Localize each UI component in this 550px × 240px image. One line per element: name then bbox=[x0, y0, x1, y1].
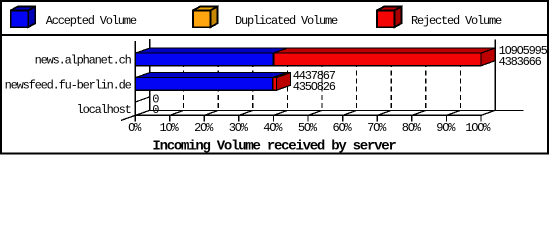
tick 0% bbox=[134, 115, 136, 121]
tick 100% bbox=[480, 115, 482, 121]
svg-text:435O826: 435O826 bbox=[293, 80, 336, 94]
svg-text:localhost: localhost bbox=[77, 103, 131, 117]
bar news.alphanet.ch right side face bbox=[481, 48, 495, 66]
front x-axis bbox=[135, 114, 481, 116]
tick 10% bbox=[169, 115, 171, 121]
bar newsfeed.fu-berlin.de top face red bbox=[273, 73, 291, 78]
legend separator bbox=[0, 34, 549, 36]
front y-axis bbox=[134, 41, 136, 116]
legend cube red (Rejected) bbox=[377, 7, 402, 28]
gridline 60% bbox=[356, 48, 358, 111]
svg-text:4383666: 4383666 bbox=[499, 55, 542, 69]
back y-axis bbox=[149, 39, 151, 111]
svg-text:1OO%: 1OO% bbox=[465, 121, 491, 135]
x axis labels bbox=[128, 121, 491, 135]
legend cube blue (Accepted) bbox=[11, 7, 36, 28]
gridline 30% bbox=[252, 48, 254, 111]
svg-text:Duplicated Volume: Duplicated Volume bbox=[235, 14, 338, 28]
bar newsfeed.fu-berlin.de accepted (blue front) bbox=[136, 78, 273, 91]
bar news.alphanet.ch accepted (blue front) bbox=[136, 53, 274, 66]
bar1 stack divider bbox=[272, 53, 274, 67]
value labels news.alphanet.ch bbox=[499, 44, 548, 69]
zero bar localhost (stacked zero-length bars) bbox=[136, 97, 150, 111]
back right frame bbox=[494, 40, 496, 111]
gridline 80% bbox=[425, 48, 427, 111]
svg-text:0: 0 bbox=[152, 103, 159, 117]
bar2 stack divider bbox=[272, 77, 274, 91]
svg-text:8O%: 8O% bbox=[402, 121, 422, 135]
tick 40% bbox=[272, 115, 274, 121]
gridline 10% bbox=[183, 48, 185, 111]
gridline 40% bbox=[286, 48, 288, 111]
back x-axis bbox=[149, 110, 524, 112]
tick 60% bbox=[342, 115, 344, 121]
svg-text:Rejected Volume: Rejected Volume bbox=[411, 14, 502, 28]
bar news.alphanet.ch top face blue bbox=[136, 48, 288, 53]
svg-text:1O%: 1O% bbox=[159, 121, 179, 135]
tick 50% bbox=[307, 115, 309, 121]
svg-text:newsfeed.fu-berlin.de: newsfeed.fu-berlin.de bbox=[5, 78, 132, 92]
svg-text:4O%: 4O% bbox=[263, 121, 283, 135]
svg-text:3O%: 3O% bbox=[229, 121, 249, 135]
bar news.alphanet.ch top face red bbox=[273, 48, 495, 53]
svg-text:Accepted Volume: Accepted Volume bbox=[46, 14, 137, 28]
tick 70% bbox=[376, 115, 378, 121]
gridline 90% bbox=[459, 48, 461, 111]
gridline 50% bbox=[321, 48, 323, 111]
tick 30% bbox=[238, 115, 240, 121]
gridline 70% bbox=[390, 48, 392, 111]
tick 90% bbox=[445, 115, 447, 121]
bar newsfeed.fu-berlin.de right side face bbox=[276, 73, 290, 91]
svg-text:5O%: 5O% bbox=[298, 121, 318, 135]
svg-text:9O%: 9O% bbox=[436, 121, 456, 135]
corner depth diagonal bbox=[121, 110, 150, 120]
tick 80% bbox=[411, 115, 413, 121]
outer border bbox=[1, 1, 548, 154]
ticks bbox=[135, 110, 495, 121]
svg-text:Incoming Volume received by se: Incoming Volume received by server bbox=[152, 139, 396, 155]
value labels newsfeed.fu-berlin.de bbox=[293, 69, 336, 94]
bar newsfeed.fu-berlin.de rejected (red front) bbox=[273, 78, 277, 91]
dashed gridlines (10%..90% back plane) bbox=[184, 48, 461, 111]
tick 20% bbox=[203, 115, 205, 121]
svg-text:O%: O% bbox=[128, 121, 142, 135]
value labels localhost bbox=[152, 92, 159, 117]
svg-text:2O%: 2O% bbox=[194, 121, 214, 135]
gridline 20% bbox=[217, 48, 219, 111]
svg-text:news.alphanet.ch: news.alphanet.ch bbox=[35, 53, 132, 67]
bar news.alphanet.ch rejected (red front) bbox=[273, 53, 481, 66]
legend cube orange (Duplicated) bbox=[193, 7, 218, 28]
y category labels bbox=[5, 53, 132, 117]
svg-text:7O%: 7O% bbox=[367, 121, 387, 135]
svg-text:6O%: 6O% bbox=[332, 121, 352, 135]
bar newsfeed.fu-berlin.de top face blue bbox=[136, 73, 287, 78]
